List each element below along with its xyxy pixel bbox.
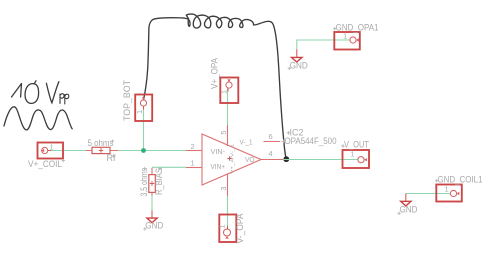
label origin cross xyxy=(62,159,65,162)
wire TOP_BOT down to VIN- net xyxy=(143,107,145,151)
annotation 10Vpp digit 1 xyxy=(12,84,22,98)
wire Rf to op-amp VIN- xyxy=(118,150,186,152)
ground symbol GND for GND_OPA1 net xyxy=(292,50,303,63)
svg-text:1: 1 xyxy=(191,159,195,168)
connector GND_COIL1 pin circle xyxy=(450,190,456,196)
svg-text:GND: GND xyxy=(145,220,163,230)
svg-text:1: 1 xyxy=(343,32,347,41)
svg-text:V-_OPA: V-_OPA xyxy=(235,214,245,244)
op-amp pin 2 stub xyxy=(186,150,202,152)
label origin cross xyxy=(143,227,146,230)
svg-text:VO: VO xyxy=(245,157,255,164)
connector TOP_BOT box xyxy=(135,95,152,122)
op-amp pin 4 output stub xyxy=(261,159,283,161)
wire V+_OPA down to pin 5 xyxy=(227,88,229,125)
connector V-_OPA box xyxy=(219,215,236,243)
name origin cross xyxy=(112,154,115,157)
resistor R_BIAS pin stubs xyxy=(151,168,153,196)
connector GND_COIL1 box xyxy=(436,185,462,202)
resistor R_BIAS body xyxy=(149,175,156,193)
op-amp IC2 triangle xyxy=(202,134,261,185)
svg-text:GND_OPA1: GND_OPA1 xyxy=(336,22,379,32)
connector V_OUT box xyxy=(343,150,370,168)
name origin cross xyxy=(158,167,161,170)
value origin cross xyxy=(111,140,114,143)
annotation pencil wire from TOP_BOT over coil scribble to output junction xyxy=(144,14,286,157)
svg-text:5 ohms: 5 ohms xyxy=(88,138,114,148)
svg-text:V_OUT: V_OUT xyxy=(344,140,369,150)
svg-text:6: 6 xyxy=(269,132,273,141)
connector V+_OPA pin circle xyxy=(226,82,232,88)
resistor Rf body xyxy=(92,147,110,153)
op-amp value origin cross xyxy=(282,140,286,144)
svg-text:V+_4/V-_1: V+_4/V-_1 xyxy=(230,143,235,174)
svg-text:VIN-: VIN- xyxy=(211,149,226,156)
op-amp pin 1 stub xyxy=(186,167,202,169)
connector V+_COIL box xyxy=(38,143,64,159)
annotation hand-drawn sine wave xyxy=(4,107,72,130)
connector V-_OPA pin circle xyxy=(224,229,231,236)
connector V+_OPA box xyxy=(220,78,238,104)
svg-text:1: 1 xyxy=(351,150,355,159)
svg-text:1: 1 xyxy=(445,184,449,193)
svg-text:1: 1 xyxy=(218,224,227,228)
svg-text:2: 2 xyxy=(191,142,195,151)
op-amp pin 6 stub xyxy=(264,141,281,143)
wire pin 3 down to V-_OPA xyxy=(227,196,229,229)
label origin cross xyxy=(397,212,400,215)
resistor Rf origin cross xyxy=(99,148,103,152)
resistor R_BIAS origin cross xyxy=(150,181,154,185)
connector GND_OPA1 box xyxy=(334,32,360,50)
connector V+_COIL pin circle xyxy=(42,147,48,153)
svg-text:R_BIAS: R_BIAS xyxy=(154,168,164,195)
wire R_BIAS bottom to GND xyxy=(151,193,153,211)
svg-text:Rf: Rf xyxy=(107,153,116,163)
annotation 10Vpp digit 0 xyxy=(25,81,39,104)
svg-text:5: 5 xyxy=(219,131,228,135)
connector TOP_BOT pin circle xyxy=(140,100,146,106)
connector GND_OPA1 pin circle xyxy=(350,37,356,43)
annotation 10Vpp letter V xyxy=(46,82,59,103)
op-amp name origin cross xyxy=(287,131,291,135)
svg-text:4: 4 xyxy=(269,149,273,158)
ground symbol GND below R_BIAS xyxy=(147,211,157,223)
connector V_OUT pin circle xyxy=(358,157,364,163)
wire V+_COIL to Rf xyxy=(48,150,86,152)
pencil junction blob on output net xyxy=(283,156,289,162)
svg-text:GND: GND xyxy=(290,60,308,70)
label origin cross xyxy=(333,27,336,30)
wire GND_COIL1 to GND xyxy=(406,193,450,195)
svg-text:OPA544F_500: OPA544F_500 xyxy=(285,136,337,146)
op-amp origin cross xyxy=(227,156,231,160)
label origin cross xyxy=(288,67,291,70)
svg-text:TOP_BOT: TOP_BOT xyxy=(122,80,132,121)
svg-text:1: 1 xyxy=(135,110,144,114)
wire R_BIAS top to op-amp VIN+ xyxy=(152,166,186,168)
wire GND_OPA1 to GND xyxy=(297,40,350,50)
annotation 10Vpp subscript pp xyxy=(60,94,69,104)
svg-text:V+_COIL: V+_COIL xyxy=(28,159,62,169)
svg-text:VIN+: VIN+ xyxy=(211,164,226,171)
resistor Rf pin stubs xyxy=(86,150,118,152)
svg-text:V+_OPA: V+_OPA xyxy=(209,58,219,89)
label origin cross xyxy=(435,179,438,182)
svg-text:1: 1 xyxy=(220,90,229,94)
svg-text:3,5 ohms: 3,5 ohms xyxy=(139,168,149,197)
svg-text:GND: GND xyxy=(400,205,418,215)
svg-text:1: 1 xyxy=(50,142,54,151)
junction on VIN- net xyxy=(141,148,146,153)
svg-text:V-_1: V-_1 xyxy=(240,139,253,146)
label origin cross xyxy=(341,144,344,147)
value origin cross xyxy=(143,167,146,170)
svg-text:GND_COIL1: GND_COIL1 xyxy=(438,174,483,184)
op-amp pin 5 stub xyxy=(227,125,229,146)
svg-text:3: 3 xyxy=(219,187,228,191)
op-amp pin 3 stub xyxy=(227,174,229,197)
wire op-amp output to V_OUT xyxy=(283,159,358,161)
ground symbol GND for GND_COIL1 net xyxy=(401,194,411,206)
